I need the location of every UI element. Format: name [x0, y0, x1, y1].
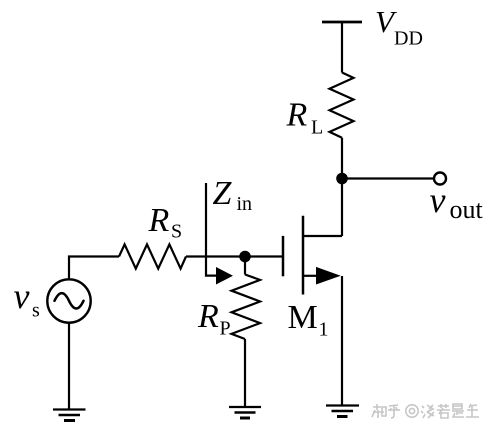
svg-text:v: v: [14, 276, 30, 316]
svg-text:in: in: [237, 193, 253, 215]
svg-text:DD: DD: [394, 28, 423, 50]
svg-text:R: R: [148, 202, 170, 239]
svg-text:R: R: [286, 97, 308, 134]
svg-text:M: M: [288, 299, 318, 336]
svg-text:R: R: [197, 298, 219, 335]
svg-text:S: S: [171, 221, 182, 243]
svg-text:Z: Z: [213, 175, 233, 212]
svg-text:L: L: [311, 117, 323, 139]
svg-text:s: s: [32, 300, 40, 322]
svg-text:out: out: [450, 195, 484, 224]
svg-text:1: 1: [319, 319, 329, 341]
svg-text:P: P: [220, 318, 231, 340]
svg-text:v: v: [430, 180, 446, 220]
